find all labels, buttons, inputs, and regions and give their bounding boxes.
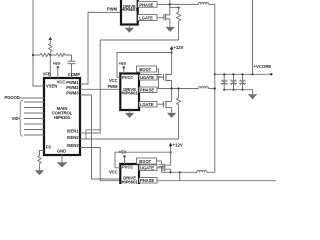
wire UGATE3 to Q5 gate bbox=[157, 167, 163, 169]
wire phase3 line bbox=[162, 171, 215, 173]
driver U2 HIP6601 (top, cropped) outline bbox=[121, 0, 138, 25]
wire UGATE2 to Q3 gate bbox=[157, 76, 164, 78]
svg-text:VFB: VFB bbox=[43, 72, 51, 77]
wire VSEN feedback vertical bbox=[33, 0, 44, 86]
U3 pin box UGATE bbox=[139, 75, 157, 81]
wire LGATE1 to Q2 gate bbox=[157, 17, 164, 19]
U2 pin box LGATE bbox=[138, 15, 157, 21]
svg-text:PHASE: PHASE bbox=[140, 88, 154, 93]
capacitor C5 bbox=[242, 74, 244, 81]
wire jog near ISEN pins bbox=[86, 130, 100, 139]
svg-text:PWM: PWM bbox=[107, 6, 118, 11]
wire VID4 bbox=[24, 123, 44, 125]
U3 pin box BOOT bbox=[137, 66, 157, 72]
ground below FS resistor bbox=[35, 170, 44, 175]
svg-text:VCC: VCC bbox=[109, 169, 118, 174]
resistor R3 (vertical to supply arrow) bbox=[49, 40, 52, 55]
ground below U2 bbox=[128, 25, 130, 28]
+VCORE rail bbox=[215, 73, 272, 75]
svg-text:ISEN2: ISEN2 bbox=[67, 135, 80, 140]
resistor R1 (feedback) bbox=[40, 53, 50, 56]
resistor R5 (ISEN1 sense) bbox=[177, 8, 181, 40]
capacitor C4 bbox=[233, 74, 235, 81]
svg-text:GND: GND bbox=[57, 149, 66, 154]
svg-text:VID: VID bbox=[12, 116, 19, 121]
svg-text:+12V: +12V bbox=[173, 45, 183, 50]
transistor Q4 (phase2 low-side) bbox=[163, 101, 165, 107]
wire PWM1 bbox=[80, 12, 121, 84]
transistor Q5 (phase3 high-side) bbox=[162, 165, 164, 171]
svg-text:COMP: COMP bbox=[68, 72, 81, 77]
main controller U1 HIP6301 outline bbox=[44, 78, 80, 155]
resistor R4 (FS) bbox=[38, 156, 41, 171]
wire VID3 bbox=[24, 118, 44, 120]
bootstrap capacitor C6 bbox=[157, 161, 162, 164]
resistor R2 (feedback) bbox=[56, 53, 64, 56]
svg-text:VCC: VCC bbox=[57, 79, 66, 84]
wire PHASE3 stub bbox=[179, 172, 181, 180]
inductor L2 bbox=[199, 87, 209, 89]
wire PGOOD bbox=[19, 97, 44, 99]
transistor Q2 (phase1 low-side) bbox=[163, 14, 165, 20]
svg-text:BOOT: BOOT bbox=[139, 159, 151, 164]
U3 pin box PHASE bbox=[139, 87, 157, 93]
svg-text:HIP6601: HIP6601 bbox=[121, 7, 138, 12]
resistor R6 (ISEN2 sense) bbox=[177, 89, 181, 140]
wire phase2 line bbox=[157, 88, 215, 90]
wire VID5 bbox=[24, 129, 44, 131]
ground below U3 bbox=[129, 110, 131, 113]
svg-text:PVCC: PVCC bbox=[122, 165, 133, 170]
svg-text:HIP6601: HIP6601 bbox=[121, 179, 138, 184]
ground below U1 GND bbox=[61, 155, 63, 162]
wire ISEN3 bbox=[80, 148, 276, 181]
svg-text:UGATE: UGATE bbox=[140, 166, 154, 171]
supply arrow above R3 bbox=[49, 37, 53, 41]
svg-text:PGOOD: PGOOD bbox=[5, 95, 20, 100]
svg-text:PWM1: PWM1 bbox=[66, 80, 79, 85]
wire PWM2 bbox=[80, 88, 120, 90]
wire compensation top rail bbox=[33, 54, 72, 56]
svg-text:LGATE: LGATE bbox=[140, 102, 154, 107]
wire U4 VCC from +12V bbox=[115, 152, 171, 168]
svg-text:+VCORE: +VCORE bbox=[254, 64, 272, 69]
inductor L3 bbox=[197, 170, 207, 172]
cropped upper FET lead phase1 bbox=[169, 0, 171, 4]
inductor L1 bbox=[199, 3, 209, 5]
wire VID0 bbox=[24, 101, 44, 103]
svg-text:BOOT: BOOT bbox=[139, 67, 151, 72]
ground below Q4 bbox=[167, 113, 176, 118]
+12V supply phase3 bbox=[169, 143, 173, 147]
svg-text:PWM: PWM bbox=[108, 84, 119, 89]
wire phase1 line bbox=[157, 4, 215, 74]
bootstrap capacitor C2 bbox=[157, 69, 159, 74]
svg-text:HIP6301: HIP6301 bbox=[54, 115, 71, 120]
wire LGATE2 to Q4 gate bbox=[157, 103, 164, 105]
driver U4 HIP6601 (bottom, cropped) outline bbox=[120, 164, 139, 201]
wire VID2 bbox=[24, 112, 44, 114]
svg-text:PWM2: PWM2 bbox=[66, 85, 79, 90]
svg-text:VCC: VCC bbox=[109, 78, 118, 83]
VID brace bbox=[18, 101, 22, 137]
driver U3 HIP6601 (middle) outline bbox=[120, 74, 139, 111]
U4 pin box PHASE bbox=[139, 178, 157, 184]
wire VFB stub bbox=[49, 55, 51, 78]
ground below Q2 bbox=[165, 27, 174, 32]
output bus vertical bbox=[214, 74, 216, 172]
svg-text:PWM3: PWM3 bbox=[66, 91, 79, 96]
svg-text:PVCC: PVCC bbox=[122, 75, 133, 80]
+12V supply phase2 bbox=[170, 46, 174, 50]
node A junction dots bbox=[32, 54, 34, 56]
svg-text:FS: FS bbox=[46, 145, 52, 150]
wire PWM3 bbox=[80, 95, 120, 179]
transistor Q3 (phase2 high-side) bbox=[163, 74, 165, 80]
ISEN1 tap wire bbox=[170, 7, 179, 9]
wire VID6 bbox=[24, 134, 44, 136]
wire ISEN2 bbox=[80, 138, 179, 140]
U3 pin box LGATE bbox=[139, 102, 157, 108]
capacitor bank ground rail bbox=[224, 90, 252, 94]
ground below capacitor bank bbox=[248, 94, 257, 99]
svg-text:PHASE: PHASE bbox=[140, 178, 154, 183]
capacitor C3 bbox=[223, 74, 225, 81]
svg-text:HIP6601: HIP6601 bbox=[121, 91, 138, 96]
svg-text:ISEN3: ISEN3 bbox=[67, 143, 80, 148]
wire VID1 bbox=[24, 107, 44, 109]
svg-text:+12V: +12V bbox=[173, 142, 183, 147]
svg-text:VSEN: VSEN bbox=[46, 84, 57, 89]
svg-text:UGATE: UGATE bbox=[140, 75, 154, 80]
wire U3 VCC from +12V bbox=[117, 53, 172, 78]
U4 pin box BOOT bbox=[137, 158, 157, 164]
U2 pin box PHASE bbox=[138, 2, 157, 8]
svg-text:PHASE: PHASE bbox=[139, 2, 153, 7]
cropped vertical at far right bbox=[252, 0, 254, 74]
svg-text:+5V: +5V bbox=[119, 61, 127, 66]
capacitor C1 (COMP) bbox=[71, 55, 73, 61]
U4 pin box UGATE bbox=[139, 165, 157, 171]
svg-text:+5V: +5V bbox=[53, 61, 61, 66]
svg-text:LGATE: LGATE bbox=[139, 16, 153, 21]
wire ISEN1 bbox=[80, 40, 179, 133]
wire FS bbox=[40, 151, 45, 156]
svg-text:ISEN1: ISEN1 bbox=[67, 129, 80, 134]
